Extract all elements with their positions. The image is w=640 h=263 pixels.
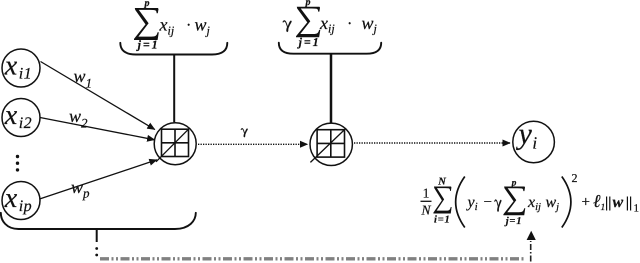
input node x_i2 xyxy=(2,99,40,137)
svg-text:−: − xyxy=(484,195,492,211)
norm bars and bold w: ||w||_1 xyxy=(606,197,608,211)
svg-text:xi1: xi1 xyxy=(4,50,32,82)
dotted wire from S2 to output node y_i xyxy=(354,142,510,144)
svg-text:wj: wj xyxy=(546,194,560,213)
arrowhead pointing up at loss formula xyxy=(527,231,536,240)
svg-text:wj: wj xyxy=(195,15,211,38)
dashed feedback line horizontal (gray dash-dot-dot) xyxy=(100,257,526,260)
svg-text:yi: yi xyxy=(516,118,538,153)
svg-text:xij: xij xyxy=(319,13,335,36)
gamma xyxy=(494,199,501,211)
svg-text:1: 1 xyxy=(634,203,640,215)
input node x_ip xyxy=(2,182,40,220)
svg-text:N: N xyxy=(437,177,446,188)
svg-text:j=1: j=1 xyxy=(136,37,160,51)
svg-text:+: + xyxy=(582,195,590,211)
input node x_i1 xyxy=(2,49,40,87)
svg-text:xip: xip xyxy=(4,183,32,215)
big left paren xyxy=(456,177,465,228)
wire from brace2 down to node S2 xyxy=(330,54,333,123)
svg-text:xi2: xi2 xyxy=(4,100,32,132)
dotted wire gamma from S1 to S2 xyxy=(198,143,308,145)
svg-text:·: · xyxy=(347,15,352,32)
summation node S1 (circle with crossed square) xyxy=(154,123,196,165)
svg-text:ℓ1: ℓ1 xyxy=(593,191,605,213)
loss formula: 1/N sum (y_i - gamma sum x_ij w_j)^2 + l1 ||w||_1 xyxy=(420,171,639,228)
svg-text:wp: wp xyxy=(71,177,90,201)
wire from brace1 down to node S1 xyxy=(173,55,175,123)
svg-text:j=1: j=1 xyxy=(504,216,523,227)
svg-text:p: p xyxy=(144,0,150,9)
output node y_i xyxy=(513,118,555,163)
svg-text:yi: yi xyxy=(466,194,478,213)
svg-text:1: 1 xyxy=(423,186,430,201)
dotted connector below input brace xyxy=(96,229,98,242)
wire wp arrow from x_ip to summing node xyxy=(40,160,157,199)
svg-text:xij: xij xyxy=(159,15,175,38)
vertical ellipsis between x_i2 and x_ip xyxy=(16,155,19,172)
formula sum1: sum over j of x_ij w_j xyxy=(134,0,211,51)
svg-text:i=1: i=1 xyxy=(434,214,451,225)
svg-text:w: w xyxy=(613,194,624,211)
summation node S2 (circle with crossed square) xyxy=(310,123,352,165)
wire w2 arrow from x_i2 to summing node xyxy=(40,118,155,140)
brace under formula sum2 xyxy=(279,43,381,54)
svg-text:j=1: j=1 xyxy=(297,35,321,49)
brace under input nodes xyxy=(1,213,196,229)
svg-text:N: N xyxy=(420,203,431,218)
wire w1 arrow from x_i1 to summing node xyxy=(41,62,155,130)
svg-text:xij: xij xyxy=(527,194,541,213)
svg-text:wj: wj xyxy=(362,13,378,36)
svg-text:p: p xyxy=(305,0,311,8)
big right paren xyxy=(562,177,571,228)
dashed connector up to loss formula xyxy=(530,241,532,262)
formula sum2: gamma times sum over j of x_ij w_j xyxy=(283,0,378,49)
label gamma xyxy=(241,128,248,137)
svg-text:2: 2 xyxy=(572,171,578,185)
svg-text:·: · xyxy=(186,17,191,34)
brace under formula sum1 xyxy=(120,43,227,55)
svg-text:w2: w2 xyxy=(69,106,88,130)
